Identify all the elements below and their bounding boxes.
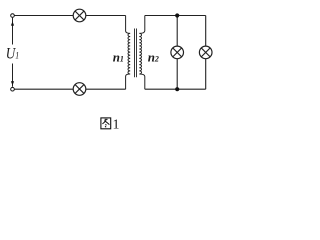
svg-text:U1: U1 [6, 45, 19, 62]
caption: character tu (figure) [101, 118, 111, 129]
wire: right edge branch [205, 16, 207, 90]
lamp A4 (right branch) [199, 46, 212, 59]
wire: top left loop [14, 15, 125, 17]
wire: bottom right loop [145, 88, 206, 90]
svg-text:1: 1 [113, 118, 120, 133]
wire: left vertical lower segment with arrow [11, 64, 14, 87]
terminal: top left [11, 14, 15, 18]
transformer primary winding n1 [126, 16, 131, 90]
transformer secondary winding n2 [139, 16, 145, 90]
terminal: bottom left [11, 87, 15, 91]
wire: top right loop [145, 15, 206, 17]
svg-text:n2: n2 [148, 49, 159, 64]
wire: left vertical upper segment with arrow [11, 18, 14, 45]
junction node: bottom [175, 87, 179, 91]
lamp A2 (bottom left branch) [73, 83, 86, 96]
transformer core [135, 29, 137, 78]
svg-text:n1: n1 [113, 49, 124, 64]
junction node: top [175, 13, 179, 17]
lamp A3 (middle branch) [171, 46, 184, 59]
wire: middle branch [176, 16, 178, 90]
lamp A1 (top left branch) [73, 9, 86, 22]
wire: bottom left loop [14, 88, 125, 90]
